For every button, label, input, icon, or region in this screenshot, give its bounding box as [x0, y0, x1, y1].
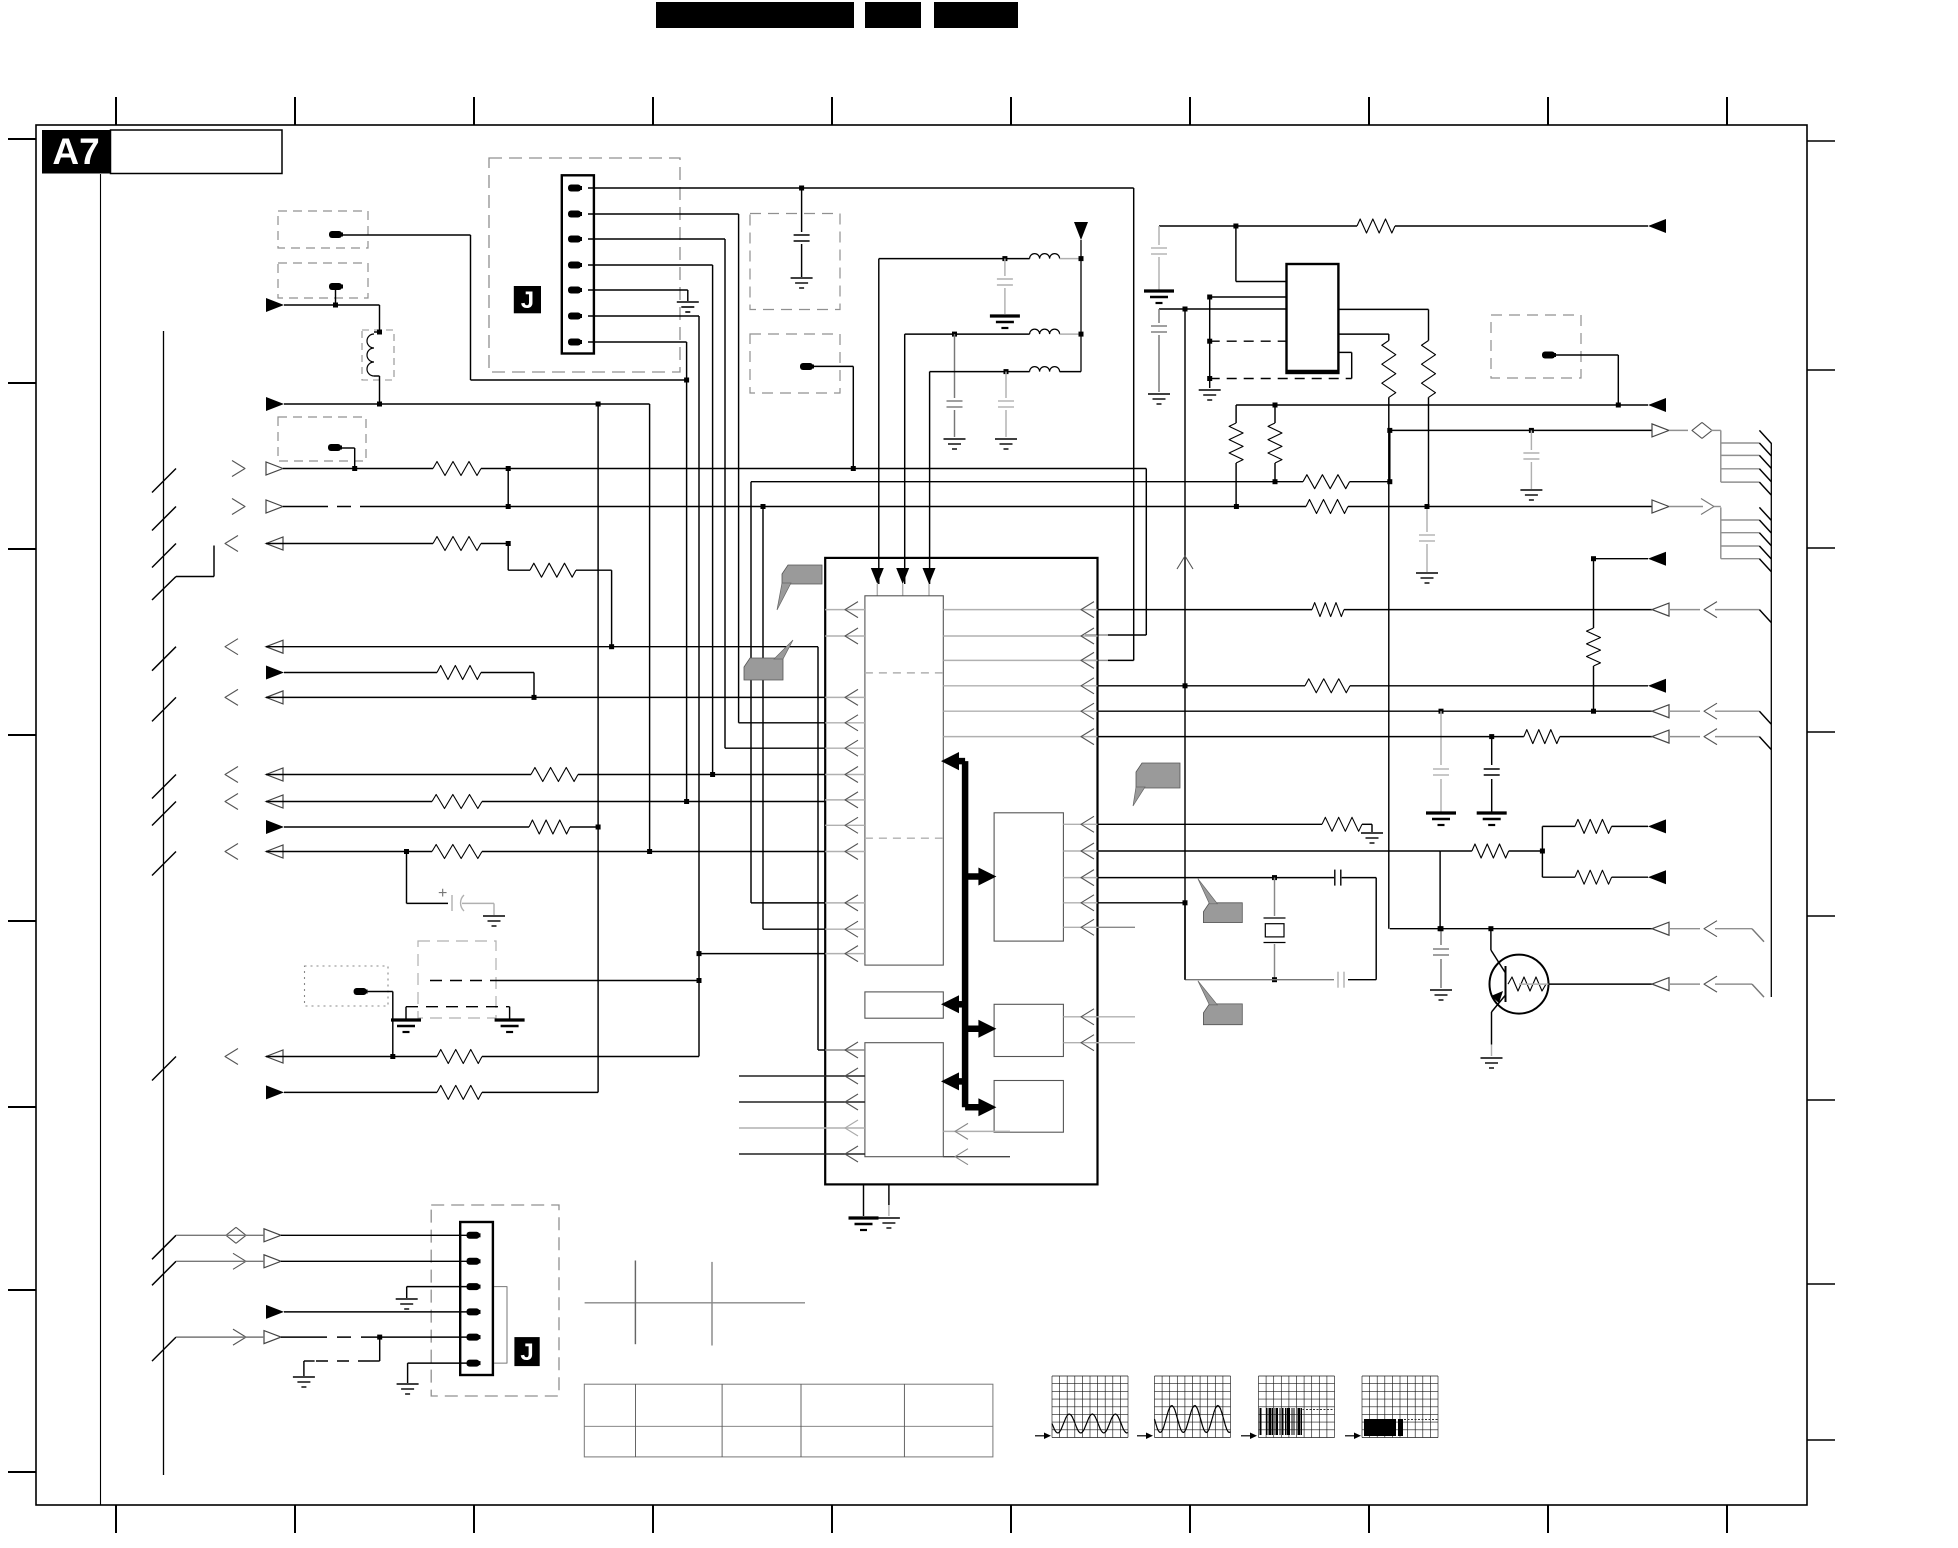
- dashed net row B: [1210, 378, 1352, 380]
- node r2 bundle x763: [761, 504, 766, 509]
- node r11 label tap: [390, 1054, 395, 1059]
- wire J1 pin6 down bundle: [588, 315, 699, 317]
- port arrow row826: [1648, 819, 1666, 833]
- node cap tap row3: [1004, 369, 1009, 374]
- sheet title box (blank): [111, 130, 283, 174]
- node row405 right: [1616, 403, 1621, 408]
- waveform inset 3 grid: [1259, 1376, 1335, 1438]
- port arrow row877: [1648, 870, 1666, 884]
- ground shield right: [495, 1018, 525, 1021]
- node r8 pin7 bundle: [684, 799, 689, 804]
- resistor R16 vertical: [1274, 405, 1276, 423]
- node dashed row B: [1207, 376, 1212, 381]
- svg-text:+: +: [438, 885, 447, 902]
- registration cross vertical 1: [634, 1261, 636, 1345]
- wire row r2 dashed section: [283, 506, 314, 508]
- ribbon bundle 1 diagonal: [1759, 455, 1771, 468]
- wire row851 crystal drive: [1098, 850, 1441, 852]
- wire row r11: [266, 1056, 437, 1058]
- wire r1 to IC pin 636: [1145, 469, 1147, 636]
- bidir chevrons row430: [1692, 422, 1702, 438]
- wire bundle vertical x598: [597, 404, 599, 1092]
- IC U1 lower block pins: [739, 1075, 865, 1077]
- wire inductor row 2: [905, 333, 1030, 335]
- wire J1 pin7 down bundle: [588, 341, 687, 343]
- node cap tap row1: [1002, 256, 1007, 261]
- wire bundle vertical x751 to IC pin 902: [750, 482, 752, 903]
- node r5 on r6: [532, 695, 537, 700]
- port arrow row685: [1648, 679, 1666, 693]
- wire row r8: [266, 801, 432, 803]
- wire row737 from IC to right edge: [1098, 736, 1524, 738]
- ribbon bundle 2 diagonal: [1759, 559, 1771, 572]
- shield dashed box BL2: [418, 941, 496, 1018]
- port arrow row711: [1652, 705, 1669, 718]
- diag row929: [1752, 929, 1764, 942]
- node TL3 on r1: [352, 466, 357, 471]
- IC U1 right block A pin: [1063, 850, 1097, 852]
- port arrow row558: [1648, 552, 1666, 566]
- ground under C3: [944, 438, 966, 440]
- node cap tap row2: [952, 332, 957, 337]
- resistor R15 vertical: [1229, 423, 1243, 463]
- resistor R25 branch down: [1575, 870, 1612, 884]
- wire row c1: [176, 1234, 264, 1236]
- wire base row984: [1549, 983, 1653, 985]
- port arrow row929: [1652, 922, 1669, 935]
- capacitor C1: [801, 188, 803, 232]
- resistor R9 on r11: [437, 1050, 482, 1064]
- wire row c4: [284, 1311, 467, 1313]
- node r2 cap tap: [1425, 504, 1430, 509]
- ground under C4: [995, 438, 1017, 440]
- ribbon bundle 2 diagonal: [1759, 507, 1771, 520]
- wire TL3 label to row r1: [342, 447, 355, 449]
- capacitor C14 to ground: [1426, 507, 1428, 533]
- wire row c5 dashed segment: [176, 1336, 264, 1338]
- wire row309 to IC U2: [1159, 308, 1287, 310]
- label box TL3 dashed: [278, 417, 366, 461]
- port arrow row430 right: [1652, 424, 1669, 437]
- IC U1 top down-arrow 1: [871, 568, 884, 584]
- node L3 out: [1079, 332, 1084, 337]
- port arrow row609: [1652, 603, 1669, 616]
- IC U1 right block A pin: [1063, 902, 1097, 904]
- sheet label A7 black box: [42, 130, 111, 174]
- label blob BL: [354, 988, 367, 995]
- IC U1 tall block right pin: [943, 635, 1097, 637]
- bus arrow into register: [950, 1001, 965, 1008]
- ground bold under C2: [990, 314, 1020, 317]
- IC U1 left pin: [825, 824, 865, 826]
- wire r3 drop: [507, 544, 509, 571]
- label box TM2 dashed: [750, 334, 840, 393]
- bus arrow into right block C: [965, 1104, 982, 1111]
- wire U2 pin to row226: [1236, 281, 1287, 283]
- ribbon bundle 1 line: [1721, 442, 1760, 444]
- callout flag F3: [1136, 763, 1180, 788]
- IC U1 tall block right pin: [943, 659, 1097, 661]
- IC U1 left pin: [825, 799, 865, 801]
- node L1 top: [377, 330, 382, 335]
- dashed net row A: [1210, 340, 1287, 342]
- ground under C12: [1430, 989, 1452, 991]
- wire row711 from IC to right edge: [1098, 710, 1653, 712]
- node R14 on r2: [1425, 504, 1430, 509]
- ground under C5: [1144, 289, 1174, 292]
- wire inductor row 3: [930, 371, 1030, 373]
- waveform inset 4 grid: [1362, 1376, 1438, 1438]
- resistor R24 branch up: [1575, 819, 1612, 833]
- wire row405 left leg: [1235, 405, 1237, 423]
- port arrow row405: [1648, 398, 1666, 412]
- resistor R3 series: [530, 563, 576, 577]
- inductor L2: [1030, 254, 1060, 259]
- ribbon bundle 1 line: [1721, 454, 1760, 456]
- diag row737: [1759, 737, 1771, 750]
- node TL2 on row305: [333, 303, 338, 308]
- node row404 split: [596, 402, 601, 407]
- node row685 riser: [1183, 683, 1188, 688]
- node row405 left: [1273, 403, 1278, 408]
- node r3 junction: [506, 541, 511, 546]
- capacitor C3: [954, 334, 956, 398]
- node row711 cap tap: [1439, 709, 1444, 714]
- resistor R14 vertical: [1422, 341, 1436, 398]
- IC U1 tall block right pin: [943, 710, 1097, 712]
- wire collector row929: [1390, 928, 1652, 930]
- wire r2 to right edge: [1236, 506, 1306, 508]
- ribbon bundle 2 diagonal: [1759, 533, 1771, 546]
- port arrow r2 right: [1652, 500, 1669, 513]
- ground under C7: [1520, 489, 1542, 491]
- node row737 cap tap: [1489, 734, 1494, 739]
- connector J2 pin 6: [467, 1360, 480, 1367]
- wire J1 pin3 to IC pin: [588, 238, 725, 240]
- capacitor C8 to ground: [1440, 711, 1442, 765]
- wire row305 with input arrow: [266, 298, 284, 312]
- title bar redacted block 1: [656, 2, 854, 28]
- port row r4 output arrows: [152, 647, 176, 671]
- wire U2 right pin upper: [1338, 308, 1428, 310]
- ribbon bundle 1 diagonal: [1759, 430, 1771, 443]
- connector J2 pin 3: [467, 1283, 480, 1290]
- node r9 on x598: [596, 825, 601, 830]
- second rail stub r3: [152, 577, 176, 601]
- frame top ticks: [115, 97, 117, 125]
- label box TL2 dashed: [278, 263, 368, 298]
- wire row226: [1159, 225, 1357, 227]
- ground under C6: [1148, 393, 1170, 395]
- wire c5 shield drop: [379, 1337, 381, 1361]
- wire R14 bottom to r2 cap node: [1428, 397, 1430, 506]
- dashed net column: [1209, 297, 1211, 388]
- wire row c2: [176, 1260, 264, 1262]
- connector J1 pin 3: [568, 236, 581, 243]
- waveform inset 1 grid: [1052, 1376, 1128, 1438]
- connector J1 dashed enclosure: [489, 158, 680, 372]
- IC U2 regulator: [1287, 264, 1339, 373]
- port row r5 input arrow: [266, 666, 284, 680]
- waveform burst pattern: [1260, 1408, 1262, 1435]
- wire J1 pin4 to IC pin: [588, 264, 713, 266]
- port arrow row984: [1652, 978, 1669, 991]
- resistor R1 on r1: [433, 462, 481, 476]
- wire U2 bottom pin loop: [1338, 351, 1351, 353]
- inductor L3: [1030, 329, 1060, 334]
- IC U1 top down-arrow 2: [896, 568, 909, 584]
- callout flag F5: [1203, 1004, 1242, 1025]
- capacitor C12 to ground: [1440, 929, 1442, 945]
- IC U1 tall functional block: [865, 596, 943, 965]
- ribbon bundle 2 stem: [1720, 507, 1722, 558]
- ribbon bundle 2 line: [1721, 519, 1760, 521]
- resistor R10 on r12: [437, 1085, 482, 1099]
- label blob TR: [1542, 352, 1555, 359]
- waveform solid burst: [1364, 1419, 1396, 1436]
- port row r3 output arrows: [152, 544, 176, 568]
- wire TR label to row405: [1556, 354, 1618, 356]
- wire row r3: [266, 543, 433, 545]
- IC U1 tall block right pin: [943, 609, 1097, 611]
- wire U2 right pin lower: [1338, 333, 1388, 335]
- IC U1 right block A pin: [1063, 926, 1097, 928]
- ground shield left: [391, 1018, 421, 1021]
- ribbon bundle 1 line: [1721, 468, 1760, 470]
- IC U1 left pin: [825, 928, 865, 930]
- port row c2 arrows: [152, 1261, 176, 1285]
- IC U1 register block: [865, 992, 943, 1018]
- wire BL label to r11: [368, 991, 393, 993]
- node R13 row481: [1387, 479, 1392, 484]
- node row309 riser: [1183, 307, 1188, 312]
- ground in J1 box (pin5): [588, 289, 688, 291]
- inductor L1: [367, 334, 374, 376]
- node shield on x699: [697, 978, 702, 983]
- IC U1 tall block right pin: [943, 685, 1097, 687]
- resistor R2 on r3: [433, 537, 481, 551]
- ground under C1: [791, 277, 813, 279]
- node dashed row A: [1207, 339, 1212, 344]
- left signal rail: [163, 331, 165, 1475]
- IC U1 ground pin 1: [863, 1184, 865, 1216]
- port row r6 output arrows: [152, 697, 176, 721]
- connector J1 body: [562, 175, 594, 353]
- ribbon bundle 2 line: [1721, 532, 1760, 534]
- wire row r9: [284, 826, 529, 828]
- wire row636 from r1: [1085, 634, 1098, 636]
- IC U1 block A row927 stub: [1098, 926, 1136, 928]
- node x649 on row r10: [647, 849, 652, 854]
- diag row711: [1759, 711, 1771, 724]
- capacitor C10 series: [1334, 870, 1336, 886]
- node crystal top: [1272, 875, 1277, 880]
- label blob TM2: [800, 363, 813, 370]
- frame left ticks: [8, 138, 36, 140]
- IC U1 outline: [825, 558, 1097, 1185]
- node row c5: [377, 1335, 382, 1340]
- port row r8 output arrows: [152, 802, 176, 826]
- transistor Q1 digital: [1490, 955, 1549, 1014]
- node row851 split: [1540, 849, 1545, 854]
- port row r9 input arrow: [266, 820, 284, 834]
- node row851 junction: [1438, 926, 1443, 931]
- node r1-r2 link: [506, 466, 511, 471]
- resistor R7 on r9: [529, 820, 570, 834]
- ribbon bundle 1 line: [1721, 481, 1760, 483]
- node crystal bottom: [1272, 977, 1277, 982]
- IC U1 tall block right pin: [943, 736, 1097, 738]
- port row r7 output arrows: [152, 775, 176, 799]
- resistor R18 vertical: [1587, 628, 1601, 666]
- ribbon bundle 2 diagonal: [1759, 546, 1771, 559]
- wire x1593 drop: [1593, 559, 1595, 628]
- wire U2 pin row297: [1210, 296, 1287, 298]
- port row r12 input arrow: [266, 1085, 284, 1099]
- resistor R22 on row824: [1322, 817, 1362, 831]
- node dashed column top: [1207, 295, 1212, 300]
- waveform sine large: [1155, 1406, 1231, 1433]
- port row c1 arrows: [152, 1235, 176, 1259]
- connector J2 pin 1: [467, 1232, 480, 1239]
- connector J1 pin 2: [568, 211, 581, 218]
- ribbon bundle 1 diagonal: [1759, 443, 1771, 456]
- inner margin line: [100, 174, 102, 1505]
- callout flag F2: [744, 658, 783, 680]
- node on r4: [609, 644, 614, 649]
- IC U1 right block A pin: [1063, 877, 1097, 879]
- capacitor C9 to ground: [1491, 737, 1493, 765]
- inductor L4: [1030, 367, 1060, 372]
- wire shield dashed net lower with grounds: [406, 1006, 510, 1008]
- waveform arrow 1: [1035, 1435, 1048, 1437]
- wire J1 pin2 to IC pin: [588, 213, 739, 215]
- callout flag F4: [1203, 903, 1242, 923]
- IC U1 left pin: [825, 902, 865, 904]
- connector J2 pin 5: [467, 1334, 480, 1341]
- IC U1 right block B pin: [1063, 1016, 1135, 1018]
- resistor R4 on r5: [437, 666, 481, 680]
- capacitor C5 stack: [1158, 226, 1160, 245]
- ground row c3: [396, 1298, 418, 1300]
- port row r10 output arrows: [152, 852, 176, 876]
- ground under C14: [1416, 572, 1438, 574]
- wire bundle vertical x763 to IC pin 929: [762, 507, 764, 930]
- IC U1 right block B pin: [1063, 1042, 1135, 1044]
- resistor R6 on r8: [432, 795, 482, 809]
- IC U1 left pin: [825, 747, 865, 749]
- port row r11 output arrows: [152, 1057, 176, 1081]
- resistor R5 on r7: [531, 768, 578, 782]
- IC U1 left pin: [825, 774, 865, 776]
- wire crystal bottom return: [1348, 979, 1376, 981]
- wire row430 to right edge: [1390, 429, 1652, 431]
- connector J1 pin 7: [568, 339, 581, 346]
- IC U1 right block A pin: [1063, 823, 1097, 825]
- svg-text:A7: A7: [52, 131, 99, 172]
- node x1593 on row711: [1591, 709, 1596, 714]
- resistor R20 on row685: [1305, 679, 1350, 693]
- wire row404 with input arrow: [266, 397, 284, 411]
- wire emitter to ground: [1491, 1045, 1493, 1057]
- capacitor C2: [1004, 259, 1006, 276]
- capacitor C11 series bottom: [1337, 972, 1339, 988]
- wire row c3 ground: [406, 1287, 408, 1298]
- node collector riser: [1488, 926, 1493, 931]
- bus arrow into right block B: [965, 1026, 982, 1033]
- wire long riser x1185: [1184, 309, 1186, 980]
- right edge bus vertical: [1770, 443, 1772, 997]
- node row188 cap tap: [799, 186, 804, 191]
- label blob TL1: [329, 231, 342, 238]
- resistor R21 on row737: [1524, 730, 1560, 744]
- wire row r10: [266, 851, 432, 853]
- IC U1 lower block: [865, 1043, 943, 1157]
- port row c4 arrow: [266, 1305, 284, 1319]
- wire row481 (bus link): [751, 481, 1303, 483]
- callout flag F1: [782, 565, 822, 584]
- wire row685 from IC to arrow: [1098, 685, 1306, 687]
- connector J1 pin 6: [568, 313, 581, 320]
- resistor R13 vertical: [1382, 341, 1396, 398]
- node row558: [1591, 556, 1596, 561]
- capacitor C4: [1005, 372, 1007, 398]
- ribbon bundle 1 diagonal: [1759, 482, 1771, 495]
- bus arrow into tall block: [950, 758, 965, 765]
- IC U1 tall block dashed divider 2: [865, 837, 943, 839]
- resistor R11 on row226: [1357, 219, 1395, 233]
- ground under C15: [483, 915, 505, 917]
- IC U1 left pin: [825, 635, 865, 637]
- node r1 blob5: [851, 466, 856, 471]
- revision table: [584, 1384, 993, 1457]
- wire row609 from IC to right edge: [1098, 609, 1313, 611]
- diag row609: [1759, 610, 1771, 623]
- arrow up on riser: [1177, 556, 1193, 569]
- wire TL2 label drop: [335, 290, 337, 305]
- connector J1 label J: [514, 286, 541, 313]
- wire J1 pin1 net: [588, 187, 1134, 189]
- bus arrow into right block A: [965, 873, 982, 880]
- connector J2 pin 2: [467, 1258, 480, 1265]
- port row r1 input arrows: [152, 469, 176, 493]
- title bar redacted block 3: [934, 2, 1018, 28]
- node crystal to row901: [1183, 900, 1188, 905]
- label box BL dotted: [305, 966, 389, 1006]
- ground under Q1 emitter: [1481, 1057, 1503, 1059]
- port arrow row737: [1652, 730, 1669, 743]
- registration cross vertical 2: [711, 1262, 713, 1346]
- connector J2 bracket pins 3-6: [494, 1287, 507, 1364]
- IC U1 left pin: [825, 953, 865, 955]
- capacitor C7 to ground: [1530, 430, 1532, 450]
- wire row405: [1236, 404, 1648, 406]
- svg-text:J: J: [521, 287, 534, 314]
- IC U1 pin wire 953 from bundle x699: [697, 951, 702, 956]
- resistor R26 internal base: [1508, 977, 1546, 991]
- ground row c6: [397, 1383, 419, 1385]
- IC U1 left pin: [825, 696, 865, 698]
- svg-text:J: J: [520, 1339, 533, 1366]
- wire row r6 to IC: [266, 696, 825, 698]
- electrolytic capacitor C15 branch: [406, 852, 408, 904]
- diag row984: [1752, 984, 1764, 997]
- ribbon bundle 1 diagonal: [1759, 469, 1771, 482]
- connector J1 pin 1: [568, 185, 581, 192]
- wire r3 chain to r4: [611, 570, 613, 647]
- resistor R19 on row609: [1312, 603, 1344, 617]
- IC U1 top down-arrow 3: [923, 568, 936, 584]
